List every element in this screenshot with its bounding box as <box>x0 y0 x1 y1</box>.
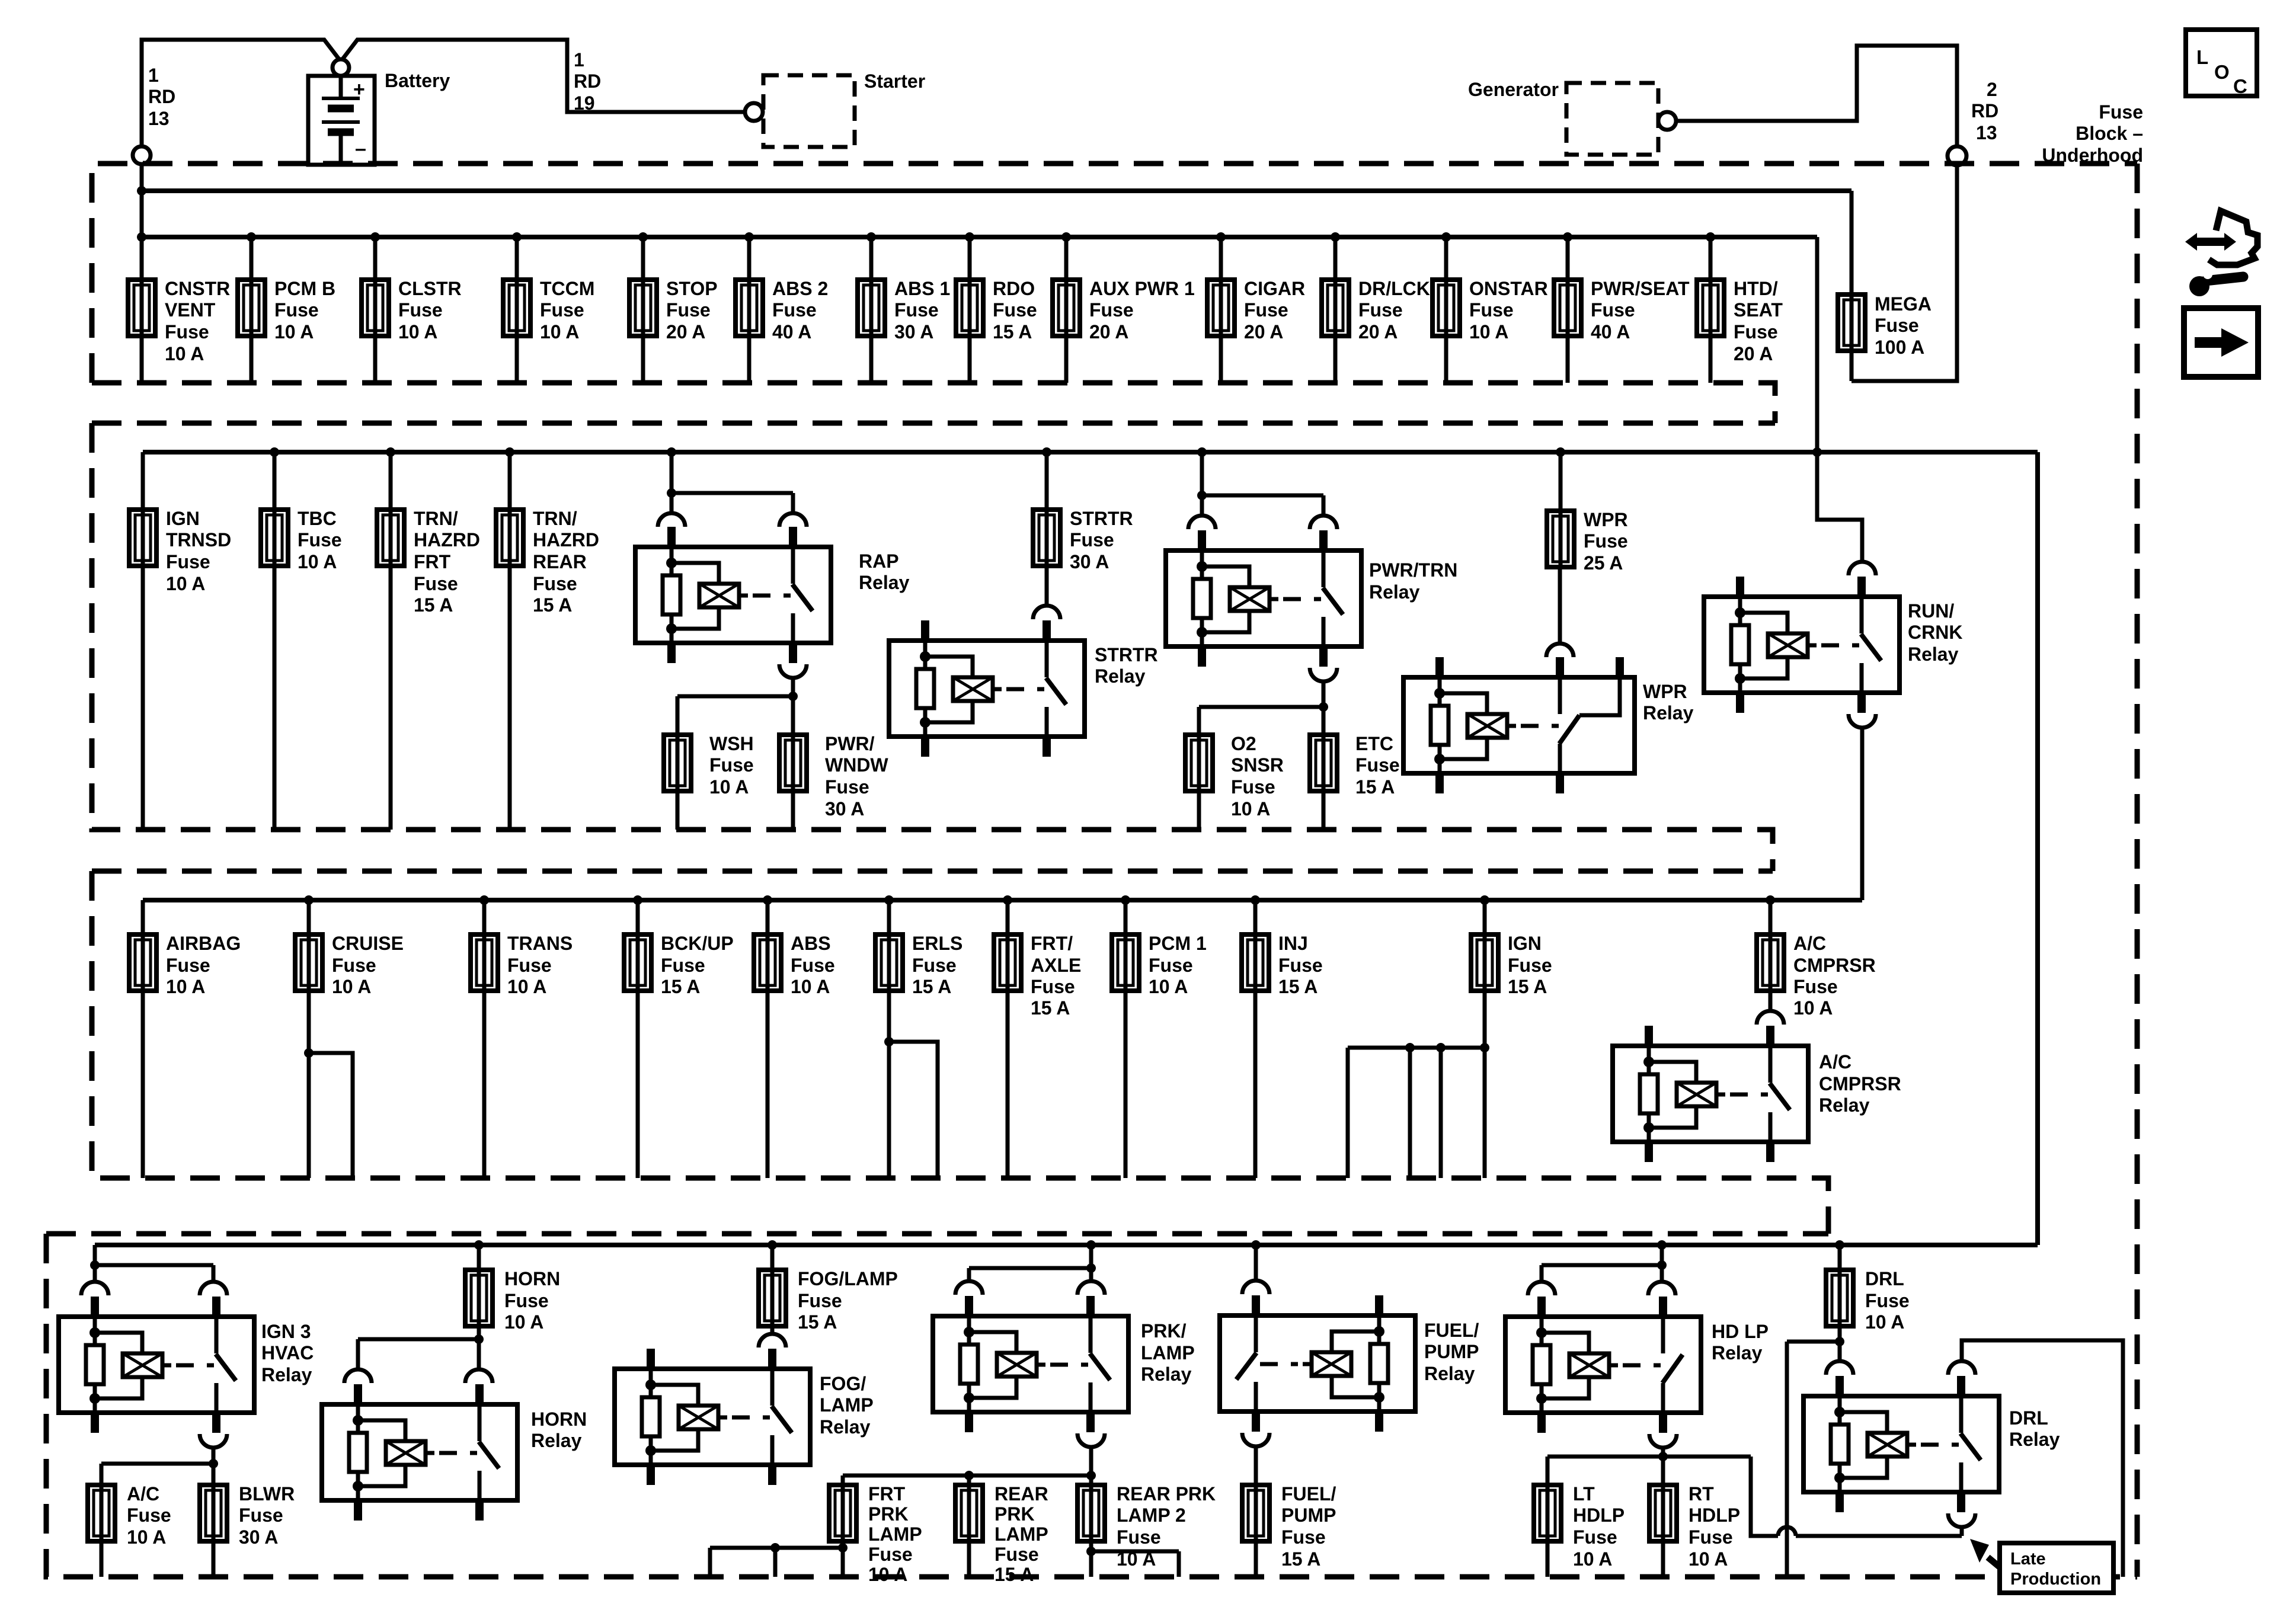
node bus1 junction DR/LCK <box>1331 232 1340 242</box>
svg-text:15 A: 15 A <box>533 594 572 616</box>
svg-text:HDLP: HDLP <box>1689 1505 1740 1526</box>
wire REAR PRK LAMP 2 outputs <box>1091 1541 1179 1577</box>
fuse IGN TRNSD <box>129 510 156 566</box>
label 1 RD 19 <box>574 49 601 114</box>
label CLSTR fuse <box>398 278 462 343</box>
svg-text:15 A: 15 A <box>912 976 951 997</box>
svg-text:WPR: WPR <box>1584 509 1628 530</box>
wire WPR fuse column <box>1560 452 1560 643</box>
svg-text:Late: Late <box>2010 1550 2046 1569</box>
wire fuse column CIGAR <box>1219 237 1223 383</box>
svg-text:20 A: 20 A <box>1358 321 1398 343</box>
svg-text:FRT/: FRT/ <box>1031 933 1073 954</box>
wire fuse column A/C CMPRSR top <box>1769 900 1773 934</box>
label CRUISE fuse <box>332 933 404 997</box>
connector arc A/C relay top <box>1757 1011 1784 1025</box>
label PWR/SEAT fuse <box>1591 278 1690 343</box>
node bus4 junction FOG/LAMP <box>768 1240 777 1250</box>
fuse O2 SNSR <box>1185 735 1213 791</box>
node RAP output junction <box>788 692 798 701</box>
svg-text:Relay: Relay <box>820 1416 871 1438</box>
wire A/C BLWR outputs <box>101 1541 213 1577</box>
fuse AUX PWR 1 <box>1053 280 1080 336</box>
connector arcs HORN relay top <box>344 1369 493 1383</box>
svg-text:PWR/SEAT: PWR/SEAT <box>1591 278 1690 299</box>
wire IGN3 HVAC feed <box>95 1245 213 1281</box>
svg-text:Fuse: Fuse <box>165 321 209 343</box>
fuse REAR PRK LAMP 2 <box>1077 1485 1105 1541</box>
connector arcs PWR/TRN relay top <box>1188 516 1337 529</box>
node bus3 junction PCM 1 <box>1121 895 1130 905</box>
fuse BLWR <box>200 1485 227 1541</box>
fuse ETC <box>1310 735 1337 791</box>
svg-text:REAR PRK: REAR PRK <box>1117 1483 1216 1505</box>
wire fuse column AIRBAG top <box>141 900 145 934</box>
node bus2 junction TBC <box>270 447 279 457</box>
svg-text:1: 1 <box>574 49 584 71</box>
svg-text:Block –: Block – <box>2076 123 2143 144</box>
wire bus 2 (section 2) <box>143 450 2038 454</box>
label BLWR fuse <box>239 1483 295 1548</box>
node bus3 junction IGN <box>1480 895 1489 905</box>
wire MEGA fuse branch <box>1850 191 1854 381</box>
svg-text:FOG/: FOG/ <box>820 1373 866 1394</box>
svg-text:Starter: Starter <box>864 71 925 92</box>
node HORN feed junction <box>474 1334 484 1344</box>
wire bus2 right drop to bus4 <box>2035 452 2040 1245</box>
fuse BCK/UP <box>624 934 651 991</box>
label FOG/LAMP Relay <box>820 1373 874 1438</box>
svg-text:CIGAR: CIGAR <box>1244 278 1305 299</box>
svg-text:STRTR: STRTR <box>1095 644 1158 665</box>
node PRK/LAMP feed split <box>1086 1263 1096 1273</box>
label Fuse Block - Underhood <box>2042 101 2143 166</box>
svg-text:Fuse: Fuse <box>868 1544 913 1565</box>
node bus3 junction BCK/UP <box>633 895 642 905</box>
svg-text:SEAT: SEAT <box>1734 299 1783 321</box>
node bus1 junction HTD/ SEAT <box>1706 232 1715 242</box>
svg-text:10 A: 10 A <box>398 321 437 343</box>
wire fuse column CNSTR VENT <box>140 237 144 383</box>
relay RUN/CRNK <box>1704 577 1900 713</box>
node bus2 x bus1-drop junction <box>1812 447 1822 457</box>
fuse INJ <box>1242 934 1269 991</box>
svg-text:TRNSD: TRNSD <box>166 529 231 550</box>
wire bus 1 (fuse row 1) <box>142 235 1817 239</box>
connector arc DRL switch top <box>1948 1361 1975 1375</box>
svg-text:25 A: 25 A <box>1584 552 1623 574</box>
svg-text:WPR: WPR <box>1643 681 1687 702</box>
svg-text:RT: RT <box>1689 1483 1714 1505</box>
fuse CLSTR <box>362 280 389 336</box>
label RAP Relay <box>859 550 910 593</box>
svg-text:PUMP: PUMP <box>1281 1505 1336 1526</box>
wire A/C CMPRSR fuse to relay <box>1769 991 1773 1012</box>
svg-text:13: 13 <box>148 108 170 129</box>
svg-text:Fuse: Fuse <box>1031 976 1075 997</box>
svg-text:A/C: A/C <box>1819 1051 1851 1073</box>
label PWR/TRN Relay <box>1369 559 1457 603</box>
svg-text:Fuse: Fuse <box>661 955 705 976</box>
svg-text:REAR: REAR <box>994 1483 1048 1505</box>
svg-text:Fuse: Fuse <box>798 1290 842 1311</box>
wire CRUISE output + branch <box>309 991 353 1178</box>
svg-text:10 A: 10 A <box>1865 1311 1904 1333</box>
svg-text:Generator: Generator <box>1468 79 1559 100</box>
svg-text:TRN/: TRN/ <box>533 508 577 529</box>
connector arc STRTR relay top <box>1033 606 1060 619</box>
connector arc PWR/TRN switch bottom <box>1310 668 1337 681</box>
svg-text:Relay: Relay <box>1095 665 1146 687</box>
fuse AIRBAG <box>129 934 156 991</box>
svg-text:PRK/: PRK/ <box>1141 1320 1187 1342</box>
relay STRTR <box>889 620 1085 757</box>
svg-text:Fuse: Fuse <box>666 299 711 321</box>
svg-text:Fuse: Fuse <box>1689 1526 1733 1548</box>
svg-text:CMPRSR: CMPRSR <box>1819 1073 1901 1094</box>
svg-text:10 A: 10 A <box>1231 798 1270 820</box>
label A/C fuse <box>127 1483 171 1548</box>
fuse PWR/WNDW <box>779 735 807 791</box>
relay WPR <box>1403 657 1635 793</box>
svg-text:Fuse: Fuse <box>791 955 835 976</box>
fuse RT HDLP <box>1649 1485 1677 1541</box>
svg-text:20 A: 20 A <box>1734 343 1773 364</box>
svg-text:WSH: WSH <box>709 733 754 754</box>
svg-text:DRL: DRL <box>1865 1268 1904 1289</box>
svg-text:MEGA: MEGA <box>1875 293 1932 315</box>
wire LT RT HDLP outputs <box>1547 1541 1663 1577</box>
node HD LP output junction <box>1658 1452 1668 1461</box>
label IGN 3 HVAC Relay <box>261 1321 314 1385</box>
svg-text:Fuse: Fuse <box>1149 955 1193 976</box>
svg-text:CNSTR: CNSTR <box>165 278 230 299</box>
label HD LP Relay <box>1712 1321 1769 1363</box>
svg-text:20 A: 20 A <box>1089 321 1128 343</box>
node bus1 junction TCCM <box>512 232 522 242</box>
fuse PCM B <box>238 280 265 336</box>
svg-text:30 A: 30 A <box>239 1526 278 1548</box>
fuse TBC <box>261 510 288 566</box>
svg-text:Fuse: Fuse <box>772 299 817 321</box>
svg-text:30 A: 30 A <box>894 321 933 343</box>
svg-text:Fuse: Fuse <box>1278 955 1323 976</box>
svg-text:Fuse: Fuse <box>504 1290 549 1311</box>
node starter terminal <box>745 103 763 121</box>
wire generator to RD13 node <box>1676 46 1957 146</box>
svg-text:+: + <box>353 78 365 101</box>
wire FOG/LAMP fuse column <box>770 1245 775 1334</box>
wire RAP output <box>677 678 793 735</box>
wire fuse column TRANS top <box>482 900 487 934</box>
svg-text:L: L <box>2196 46 2208 68</box>
svg-text:HORN: HORN <box>531 1409 587 1430</box>
svg-text:Fuse: Fuse <box>1865 1290 1910 1311</box>
svg-text:10 A: 10 A <box>1689 1548 1728 1570</box>
wire HORN relay feed <box>358 1339 479 1369</box>
svg-text:10 A: 10 A <box>166 573 205 594</box>
svg-text:30 A: 30 A <box>825 798 864 820</box>
node battery positive terminal <box>332 59 349 76</box>
label PCM B fuse <box>274 278 335 343</box>
svg-text:10 A: 10 A <box>540 321 579 343</box>
connector arcs IGN3 relay top <box>81 1282 227 1295</box>
fuse IGN <box>1471 934 1498 991</box>
svg-text:Fuse: Fuse <box>1355 754 1400 776</box>
svg-text:Fuse: Fuse <box>1793 976 1838 997</box>
label CIGAR fuse <box>1244 278 1305 343</box>
label RT HDLP fuse <box>1689 1483 1740 1570</box>
svg-text:TRANS: TRANS <box>507 933 573 954</box>
svg-text:AXLE: AXLE <box>1031 955 1081 976</box>
wire fuse column PWR/SEAT <box>1566 237 1570 383</box>
wire battery feed left (1 RD 13) <box>142 40 340 146</box>
svg-text:ETC: ETC <box>1355 733 1393 754</box>
svg-text:Fuse: Fuse <box>298 529 342 550</box>
svg-text:WNDW: WNDW <box>825 754 888 776</box>
node bus2 junction WPR <box>1556 447 1565 457</box>
svg-text:Fuse: Fuse <box>332 955 376 976</box>
connector arc RAP switch bottom <box>779 664 807 678</box>
label HORN fuse <box>504 1268 560 1333</box>
label WPR Relay <box>1643 681 1694 724</box>
fuse A/C CMPRSR <box>1757 934 1784 991</box>
fuse DRL <box>1826 1270 1853 1326</box>
fuse block box2 border (dashed) <box>92 423 1775 871</box>
svg-text:15 A: 15 A <box>1031 997 1070 1019</box>
wire WSH PWR/WNDW outputs <box>677 791 793 830</box>
svg-text:HTD/: HTD/ <box>1734 278 1778 299</box>
label AIRBAG fuse <box>166 933 241 997</box>
label TCCM fuse <box>540 278 594 343</box>
label Generator <box>1468 79 1559 100</box>
svg-text:Fuse: Fuse <box>533 573 577 594</box>
fuse TRN/ HAZRD REAR <box>496 510 523 566</box>
fuse block right border (dashed) <box>2135 164 2140 1577</box>
node PWR/TRN feed split <box>1197 491 1207 500</box>
wire BCK/UP output <box>636 991 640 1178</box>
label STRTR fuse <box>1070 508 1133 572</box>
node bus1 junction ONSTAR <box>1441 232 1451 242</box>
wire fuse column INJ top <box>1253 900 1258 934</box>
svg-text:10 A: 10 A <box>1793 997 1833 1019</box>
wire fuse column PCM B <box>250 237 254 383</box>
wire bus 4 (section 4) <box>95 1243 2038 1247</box>
label ONSTAR fuse <box>1469 278 1548 343</box>
relay DRL <box>1803 1376 1999 1512</box>
svg-text:PRK: PRK <box>868 1503 909 1525</box>
connector arc DRL switch bottom <box>1948 1513 1975 1527</box>
node generator terminal <box>1658 112 1676 130</box>
svg-text:15 A: 15 A <box>994 1564 1034 1585</box>
svg-text:FOG/LAMP: FOG/LAMP <box>798 1268 898 1289</box>
svg-text:Fuse: Fuse <box>540 299 584 321</box>
svg-text:DR/LCK: DR/LCK <box>1358 278 1430 299</box>
relay RAP <box>635 527 831 663</box>
svg-text:RUN/: RUN/ <box>1908 600 1954 622</box>
label PWR/WNDW fuse <box>825 733 888 820</box>
fuse ABS 1 <box>858 280 885 336</box>
svg-text:LAMP: LAMP <box>994 1523 1048 1545</box>
wire IGN output + sub-bus <box>1348 991 1485 1178</box>
wire fuse column ABS top <box>766 900 770 934</box>
wire HD LP output sub-bus <box>1547 1448 1778 1536</box>
svg-text:15 A: 15 A <box>1281 1548 1320 1570</box>
icon forward arrow box <box>2184 308 2258 377</box>
wire DRL switch feed elbow <box>1962 1340 2123 1577</box>
label 1 RD 13 <box>148 65 175 129</box>
wire fuse column ERLS top <box>887 900 891 934</box>
svg-text:VENT: VENT <box>165 299 216 321</box>
svg-text:19: 19 <box>574 92 595 114</box>
svg-text:FRT: FRT <box>868 1483 906 1505</box>
label O2 SNSR fuse <box>1231 733 1284 820</box>
node connector C2 (2 RD 13) <box>1948 146 1966 165</box>
label A/C CMPRSR Relay <box>1819 1051 1901 1116</box>
svg-text:Fuse: Fuse <box>1469 299 1514 321</box>
svg-text:Fuse: Fuse <box>1573 1526 1617 1548</box>
fuse PCM 1 <box>1112 934 1139 991</box>
svg-text:STRTR: STRTR <box>1070 508 1133 529</box>
svg-text:LT: LT <box>1573 1483 1595 1505</box>
svg-text:ABS: ABS <box>791 933 831 954</box>
label DRL fuse <box>1865 1268 1910 1333</box>
fuse FOG/LAMP <box>759 1270 786 1326</box>
label AUX PWR 1 fuse <box>1089 278 1195 343</box>
label FUEL/PUMP fuse <box>1281 1483 1336 1570</box>
node bus1 junction PWR/SEAT <box>1563 232 1572 242</box>
svg-text:BCK/UP: BCK/UP <box>661 933 734 954</box>
label PCM 1 fuse <box>1149 933 1207 997</box>
svg-text:Fuse: Fuse <box>127 1505 171 1526</box>
wire fuse column ONSTAR <box>1444 237 1448 383</box>
label WPR fuse <box>1584 509 1628 574</box>
svg-text:PWR/TRN: PWR/TRN <box>1369 559 1457 581</box>
svg-text:Fuse: Fuse <box>709 754 754 776</box>
label FUEL/PUMP Relay <box>1424 1320 1479 1384</box>
wire fuse column DR/LCK <box>1334 237 1338 383</box>
wire IGN3 output <box>101 1448 213 1485</box>
svg-text:Relay: Relay <box>1643 702 1694 724</box>
wire PCM 1 output <box>1124 991 1128 1178</box>
wire fuse column HTD/ SEAT <box>1709 237 1713 383</box>
wire fuse column BCK/UP top <box>636 900 640 934</box>
svg-text:RDO: RDO <box>993 278 1035 299</box>
svg-text:ABS 2: ABS 2 <box>772 278 828 299</box>
label BCK/UP fuse <box>661 933 734 997</box>
label RUN/CRNK Relay <box>1908 600 1962 665</box>
svg-text:15 A: 15 A <box>1508 976 1547 997</box>
wire fuse column PCM 1 top <box>1124 900 1128 934</box>
connector arc RUN/CRNK top <box>1849 562 1876 575</box>
svg-text:100 A: 100 A <box>1875 337 1924 358</box>
relay A/C CMPRSR <box>1613 1026 1808 1162</box>
node IGN sub-bus junctions <box>1405 1043 1489 1052</box>
label LT HDLP fuse <box>1573 1483 1625 1570</box>
node bus4 junction HORN <box>474 1240 484 1250</box>
node bus4 junction DRL <box>1835 1240 1844 1250</box>
svg-text:ABS 1: ABS 1 <box>894 278 950 299</box>
node bus3 junction TRANS <box>479 895 489 905</box>
svg-text:20 A: 20 A <box>666 321 705 343</box>
wire PWR/TRN relay feed <box>1202 452 1323 516</box>
svg-text:Fuse: Fuse <box>1591 299 1635 321</box>
svg-text:Fuse: Fuse <box>1089 299 1134 321</box>
svg-text:Relay: Relay <box>531 1430 582 1451</box>
wire bus A (battery hot) <box>142 188 1851 193</box>
fuse DR/LCK <box>1322 280 1349 336</box>
svg-text:O: O <box>2214 61 2230 83</box>
label STOP fuse <box>666 278 718 343</box>
label HORN Relay <box>531 1409 587 1451</box>
wire DRL coil feed <box>1838 1342 1842 1361</box>
svg-text:Fuse: Fuse <box>994 1544 1039 1565</box>
wire RD13 down to MEGA fuse bottom <box>1851 165 1957 381</box>
svg-text:AUX PWR 1: AUX PWR 1 <box>1089 278 1195 299</box>
svg-text:10 A: 10 A <box>332 976 371 997</box>
node bus1 junction CIGAR <box>1216 232 1226 242</box>
fuse CRUISE <box>295 934 322 991</box>
icon LOC box <box>2186 30 2257 97</box>
label IGN TRNSD fuse <box>166 508 231 594</box>
wire fuse column RDO <box>968 237 972 383</box>
node bus2 junction TRN/ HAZRD FRT <box>386 447 395 457</box>
svg-text:15 A: 15 A <box>1355 776 1395 798</box>
svg-text:Fuse: Fuse <box>1734 321 1778 343</box>
svg-text:IGN: IGN <box>1508 933 1542 954</box>
svg-text:10 A: 10 A <box>709 776 749 798</box>
svg-text:13: 13 <box>1976 122 1997 143</box>
svg-text:Relay: Relay <box>1908 644 1959 665</box>
wire fuse column CRUISE top <box>307 900 311 934</box>
svg-text:Relay: Relay <box>1141 1363 1192 1385</box>
wire fuse column STOP <box>641 237 645 383</box>
svg-text:PCM B: PCM B <box>274 278 335 299</box>
node bus1 junction ABS 1 <box>866 232 876 242</box>
svg-text:10 A: 10 A <box>504 1311 543 1333</box>
svg-text:HDLP: HDLP <box>1573 1505 1625 1526</box>
relay HORN <box>322 1384 517 1521</box>
node bus2 junction RAP <box>667 447 676 457</box>
relay IGN 3 HVAC <box>59 1297 254 1433</box>
fuse ONSTAR <box>1432 280 1460 336</box>
svg-text:RD: RD <box>574 71 601 92</box>
node bus A battery junction <box>137 186 146 196</box>
wire DRL output with crossover hop <box>1778 1527 1962 1536</box>
wire fuse column TRN/ HAZRD REAR <box>508 452 512 830</box>
label MEGA Fuse 100 A <box>1875 293 1932 358</box>
connector arcs PRK/LAMP relay top <box>955 1281 1105 1295</box>
fuse ABS 2 <box>736 280 763 336</box>
node PRK/LAMP output junctions <box>964 1471 1096 1480</box>
label REAR PRK LAMP 2 fuse <box>1117 1483 1216 1570</box>
node bus4 junction HD LP <box>1657 1240 1667 1250</box>
svg-text:RAP: RAP <box>859 550 899 572</box>
label HTD/ SEAT fuse <box>1734 278 1783 364</box>
node bus3 junction ABS <box>763 895 772 905</box>
wire STRTR fuse column <box>1045 452 1049 606</box>
svg-text:HORN: HORN <box>504 1268 560 1289</box>
svg-text:Fuse: Fuse <box>1231 776 1275 798</box>
svg-text:20 A: 20 A <box>1244 321 1283 343</box>
svg-text:O2: O2 <box>1231 733 1256 754</box>
MEGA fuse F-MEGA <box>1838 295 1865 351</box>
fuse ABS <box>754 934 781 991</box>
svg-text:Fuse: Fuse <box>1281 1526 1326 1548</box>
label ETC fuse <box>1355 733 1400 798</box>
svg-text:Fuse: Fuse <box>507 955 552 976</box>
svg-text:ERLS: ERLS <box>912 933 962 954</box>
